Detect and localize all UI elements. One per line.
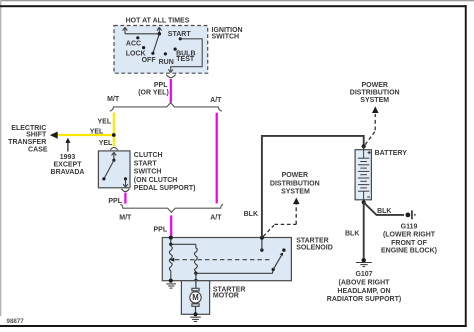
- solenoid battery contact: [260, 248, 263, 251]
- svg-text:BLK: BLK: [345, 231, 359, 238]
- wire from top to battery contact: [261, 238, 263, 250]
- motor bottom terminal: [192, 304, 199, 307]
- clutch contact top: [112, 159, 115, 162]
- frame top border: [0, 5, 467, 7]
- battery B1: [355, 150, 371, 200]
- mechanical linkage dashed: [175, 259, 271, 261]
- svg-text:HEADLAMP, ON: HEADLAMP, ON: [337, 288, 390, 295]
- svg-text:ENGINE BLOCK): ENGINE BLOCK): [381, 248, 437, 255]
- motor M1: [190, 292, 201, 303]
- ground G107: [362, 258, 366, 262]
- motor top terminal: [192, 288, 199, 291]
- svg-text:SWITCH: SWITCH: [134, 169, 162, 176]
- dashed arrow to power distribution (solenoid): [263, 204, 296, 237]
- svg-text:START: START: [134, 160, 158, 167]
- svg-text:HOT AT ALL TIMES: HOT AT ALL TIMES: [126, 18, 190, 25]
- svg-text:POWER: POWER: [361, 82, 387, 89]
- junction dot YEL: [112, 133, 116, 137]
- svg-text:DISTRIBUTION: DISTRIBUTION: [270, 180, 320, 187]
- svg-text:EXCEPT: EXCEPT: [53, 161, 82, 168]
- svg-text:SYSTEM: SYSTEM: [281, 189, 310, 196]
- svg-text:CASE: CASE: [28, 147, 48, 154]
- clutch contact lower: [102, 177, 105, 180]
- contact RUN: [164, 52, 167, 55]
- contact OFF: [151, 52, 154, 55]
- dashed arrow to power distribution (battery): [365, 114, 375, 145]
- svg-text:PEDAL SUPPORT): PEDAL SUPPORT): [134, 185, 196, 192]
- svg-text:FRONT OF: FRONT OF: [391, 240, 427, 247]
- svg-text:BRAVADA: BRAVADA: [51, 169, 85, 176]
- svg-text:DISTRIBUTION: DISTRIBUTION: [350, 90, 400, 97]
- wire YEL vertical: [113, 113, 115, 147]
- top gray page edge: [0, 0, 474, 1]
- svg-text:A/T: A/T: [210, 215, 222, 222]
- svg-text:(LOWER RIGHT: (LOWER RIGHT: [383, 232, 436, 239]
- solenoid motor contact: [282, 248, 285, 251]
- merge brace M/T A/T lower: [120, 204, 223, 212]
- junction dot solenoid input: [169, 236, 173, 240]
- battery top terminal dot: [362, 144, 366, 148]
- dot at solenoid ground: [169, 279, 173, 283]
- frame right border: [465, 5, 467, 327]
- contact START: [179, 37, 182, 40]
- wire YEL horizontal: [57, 134, 114, 136]
- battery internal plates: [358, 146, 369, 202]
- hold-in winding coil: [169, 246, 172, 280]
- dot at motor feed: [194, 279, 198, 283]
- arrow to transfer case: [50, 132, 58, 139]
- wire PPL clutch output: [124, 193, 126, 204]
- wire PPL from ignition: [170, 79, 172, 103]
- clutch lever: [104, 160, 114, 179]
- starter motor box: [181, 281, 209, 315]
- motor bottom lead: [195, 306, 197, 314]
- svg-text:SOLENOID: SOLENOID: [296, 245, 333, 252]
- solenoid top junction dot: [260, 236, 264, 240]
- svg-text:YEL: YEL: [97, 118, 111, 125]
- splice brace M/T A/T upper: [110, 103, 222, 112]
- wire to pull-in winding: [171, 243, 196, 245]
- wire BLK solenoid to battery: [262, 136, 364, 238]
- wire winding to contact arm: [196, 270, 273, 274]
- svg-text:G119: G119: [401, 223, 418, 230]
- svg-text:POWER: POWER: [282, 172, 308, 179]
- clutch start switch box: [98, 151, 130, 188]
- clutch output arrow: [123, 179, 128, 187]
- clutch output contact: [124, 177, 127, 180]
- wire PPL A/T branch: [216, 113, 218, 204]
- svg-text:BLK: BLK: [377, 208, 391, 215]
- svg-text:G107: G107: [355, 271, 372, 278]
- ground G119 connector: [406, 213, 411, 218]
- svg-text:SYSTEM: SYSTEM: [360, 97, 389, 104]
- svg-text:RADIATOR SUPPORT): RADIATOR SUPPORT): [327, 296, 401, 303]
- svg-text:YEL: YEL: [90, 128, 104, 135]
- svg-text:CLUTCH: CLUTCH: [134, 152, 163, 159]
- svg-text:STARTER: STARTER: [296, 238, 329, 245]
- svg-text:PPL: PPL: [153, 226, 167, 233]
- svg-text:98877: 98877: [7, 318, 25, 325]
- wire to winding split: [170, 238, 172, 245]
- wire PPL to solenoid: [170, 215, 172, 237]
- svg-text:ACC: ACC: [126, 41, 141, 48]
- svg-text:TEST: TEST: [176, 56, 195, 63]
- connector bump above clutch switch: [110, 148, 117, 150]
- motor top lead: [195, 281, 197, 288]
- dot at motor ground: [193, 312, 197, 316]
- svg-text:YEL: YEL: [99, 140, 113, 147]
- svg-text:SWITCH: SWITCH: [212, 33, 240, 40]
- winding split dot: [169, 243, 172, 246]
- svg-text:BATTERY: BATTERY: [375, 150, 408, 157]
- connector bump below clutch switch: [122, 189, 130, 192]
- svg-text:SHIFT: SHIFT: [26, 132, 47, 139]
- switch lever to OFF: [153, 34, 159, 54]
- svg-text:1993: 1993: [60, 154, 76, 161]
- 1993 callout arrow: [67, 142, 69, 152]
- contact ACC: [136, 36, 139, 39]
- battery bottom terminal dot: [362, 200, 366, 204]
- wire BLK to G119: [364, 202, 404, 215]
- svg-text:(ABOVE RIGHT: (ABOVE RIGHT: [339, 279, 391, 286]
- pull-in winding coil: [194, 244, 197, 273]
- svg-text:A/T: A/T: [210, 97, 222, 104]
- svg-text:(ON CLUTCH: (ON CLUTCH: [134, 177, 178, 184]
- starter solenoid box: [162, 238, 291, 281]
- solenoid contact arm: [273, 256, 281, 270]
- svg-text:TRANSFER: TRANSFER: [8, 139, 46, 146]
- wire between feed arrows: [125, 33, 159, 35]
- svg-text:M/T: M/T: [107, 96, 120, 103]
- ground motor: [190, 317, 201, 321]
- wire winding to motor: [195, 273, 197, 281]
- ignition feed arrow mid: [157, 27, 162, 34]
- wire BLK to G107: [363, 202, 365, 258]
- svg-text:M: M: [192, 293, 199, 302]
- left gray page edge: [0, 0, 1, 316]
- ignition switch box: [114, 26, 208, 74]
- frame bottom border: [0, 325, 467, 327]
- battery minus: [367, 196, 370, 198]
- svg-text:OFF: OFF: [142, 57, 157, 64]
- clutch switch input arrow: [112, 152, 117, 160]
- ground solenoid: [166, 284, 176, 288]
- ignition feed arrow left: [123, 27, 128, 34]
- svg-text:PPL: PPL: [154, 82, 168, 89]
- svg-text:BLK: BLK: [244, 211, 258, 218]
- svg-text:(OR YEL): (OR YEL): [138, 90, 169, 97]
- solenoid contact arm pivot: [272, 268, 275, 271]
- svg-text:MOTOR: MOTOR: [213, 293, 239, 300]
- contact BULB TEST: [174, 48, 177, 51]
- svg-text:RUN: RUN: [159, 59, 174, 66]
- battery plus: [368, 151, 371, 154]
- pull-in winding bottom junction: [194, 272, 197, 275]
- contact LOCK: [142, 46, 145, 49]
- svg-text:START: START: [168, 31, 192, 38]
- connector bump below ignition switch: [166, 74, 175, 77]
- svg-text:M/T: M/T: [119, 215, 132, 222]
- junction dot B+: [158, 32, 162, 36]
- bulb test wire loop with down arrow: [168, 39, 202, 73]
